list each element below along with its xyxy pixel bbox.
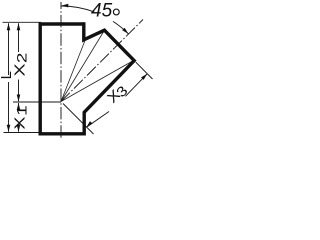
svg-text:X2: X2	[11, 53, 30, 77]
svg-text:X1: X1	[11, 105, 30, 129]
svg-text:45: 45	[91, 1, 113, 22]
